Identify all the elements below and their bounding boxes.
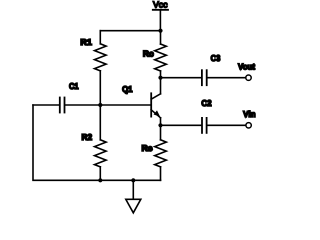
resistor R2 bbox=[82, 105, 107, 180]
capacitor C1 bbox=[33, 81, 100, 112]
capacitor C2 bbox=[161, 98, 246, 133]
svg-text:Rc: Rc bbox=[143, 49, 154, 59]
wire base node to Q1 base bbox=[100, 104, 151, 106]
terminal Vin bbox=[243, 109, 255, 128]
svg-text:C3: C3 bbox=[211, 53, 221, 63]
svg-text:Re: Re bbox=[142, 143, 153, 153]
resistor Re bbox=[142, 125, 167, 180]
wire top rail R1 to Vcc node bbox=[100, 30, 160, 32]
svg-text:Vcc: Vcc bbox=[153, 0, 168, 9]
node ground junction bbox=[131, 178, 135, 182]
svg-text:R2: R2 bbox=[82, 132, 93, 142]
wire bottom rail bbox=[100, 179, 160, 181]
ground bbox=[126, 180, 141, 213]
resistor Rc bbox=[143, 31, 166, 78]
power Vcc bbox=[153, 0, 168, 31]
terminal Vout bbox=[238, 62, 255, 81]
node R2 bottom junction bbox=[98, 178, 102, 182]
wire left rail bbox=[33, 105, 100, 180]
capacitor C3 bbox=[161, 53, 246, 85]
svg-text:C1: C1 bbox=[69, 81, 79, 91]
svg-text:R1: R1 bbox=[80, 37, 92, 47]
svg-text:Q1: Q1 bbox=[122, 84, 133, 94]
transistor Q1 bbox=[122, 78, 160, 126]
node Vcc junction bbox=[158, 29, 162, 33]
svg-text:Vin: Vin bbox=[243, 109, 255, 119]
resistor R1 bbox=[80, 31, 106, 105]
node emitter junction bbox=[158, 123, 162, 127]
svg-text:C2: C2 bbox=[201, 98, 211, 108]
svg-text:Vout: Vout bbox=[238, 62, 255, 72]
node base junction bbox=[98, 103, 102, 107]
node collector junction bbox=[158, 76, 162, 80]
